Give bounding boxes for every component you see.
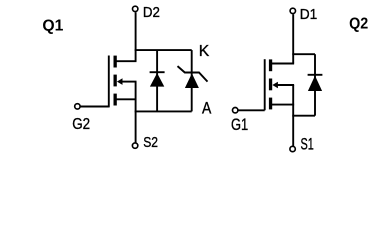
svg-text:Q2: Q2 — [349, 15, 368, 32]
terminal D2 — [133, 6, 138, 11]
wire top rail Q2 — [292, 53, 315, 55]
svg-text:S2: S2 — [143, 134, 158, 151]
wire source stub Q1 — [117, 98, 137, 100]
svg-text:A: A — [202, 99, 212, 118]
wire top rail Q1 — [135, 49, 192, 51]
diode D_body1 cathode bar — [150, 71, 165, 73]
zener Z1 cathode bar — [178, 66, 208, 82]
svg-text:S1: S1 — [301, 136, 314, 154]
transistor Q1 channel bars — [114, 56, 117, 106]
wire bottom rail Q2 — [292, 115, 315, 117]
terminal G2 — [75, 104, 80, 109]
wire source S1 vertical — [292, 85, 294, 146]
svg-text:G1: G1 — [231, 116, 248, 134]
svg-text:G2: G2 — [72, 116, 90, 133]
diode D_body2 wire — [314, 54, 316, 115]
wire gate G2 — [80, 106, 109, 108]
transistor Q1 gate line — [108, 56, 110, 108]
diode D_body1 triangle — [150, 73, 164, 87]
terminal S2 — [132, 143, 137, 148]
svg-text:D1: D1 — [300, 6, 318, 23]
wire drain D2 vertical — [135, 12, 137, 61]
svg-text:K: K — [199, 43, 210, 60]
diode D_body2 triangle — [308, 76, 322, 91]
wire drain stub Q1 — [117, 60, 137, 62]
zener Z1 triangle — [185, 73, 199, 88]
diode D_body2 cathode bar — [308, 74, 323, 76]
diode D_body1 wire — [156, 50, 158, 111]
svg-text:Q1: Q1 — [42, 18, 63, 35]
wire gate G1 — [238, 109, 265, 111]
terminal S1 — [290, 146, 295, 151]
transistor Q2 channel bars — [269, 59, 272, 109]
wire bottom rail Q1 — [135, 110, 192, 112]
wire source S2 vertical — [135, 82, 137, 143]
terminal G1 — [233, 108, 238, 113]
transistor Q1 body arrow — [117, 78, 137, 85]
svg-text:D2: D2 — [143, 4, 160, 21]
wire drain stub Q2 — [272, 63, 294, 65]
wire source stub Q2 — [272, 104, 294, 106]
transistor Q2 gate line — [264, 59, 266, 110]
transistor Q2 body arrow — [272, 82, 294, 89]
zener Z1 wire — [191, 50, 193, 111]
terminal D1 — [290, 8, 295, 13]
wire drain D1 vertical — [292, 14, 294, 63]
